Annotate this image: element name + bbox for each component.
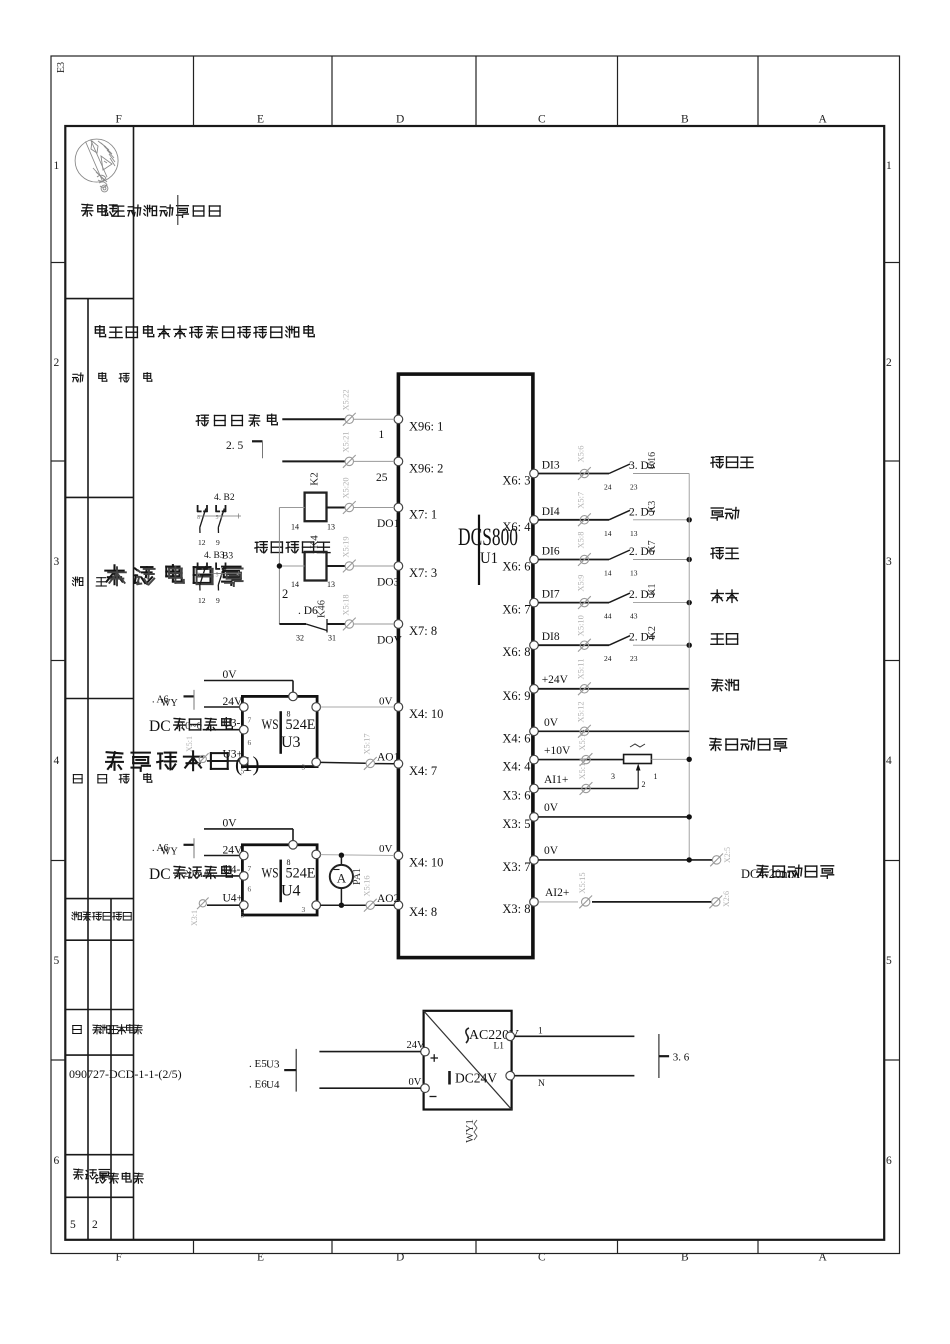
label 24V U4 bbox=[223, 844, 244, 856]
svg-text:DOV: DOV bbox=[377, 635, 403, 647]
svg-text:1: 1 bbox=[379, 429, 385, 441]
pin label X4: 10 bbox=[409, 707, 443, 721]
relay coil K2 bbox=[305, 472, 327, 521]
svg-text:K16: K16 bbox=[647, 452, 658, 469]
svg-text:U3: U3 bbox=[266, 1059, 280, 1071]
svg-text:X2:6: X2:6 bbox=[722, 891, 731, 907]
label DC速度输出 bbox=[149, 718, 232, 735]
wire U3- U3 bbox=[203, 729, 240, 731]
column letter B bottom bbox=[681, 1252, 689, 1264]
wire DI7 row bbox=[538, 602, 609, 604]
svg-text:13: 13 bbox=[630, 569, 638, 578]
wire DI6 row bbox=[538, 559, 609, 561]
wire DI8 row bbox=[538, 644, 609, 646]
pin label X6: 8 bbox=[502, 645, 530, 659]
K4 pin numbers 14 13 bbox=[291, 580, 335, 589]
column letter A top bbox=[819, 114, 828, 126]
svg-text:3: 3 bbox=[302, 762, 306, 771]
svg-text:X5:11: X5:11 bbox=[576, 659, 586, 680]
title block horizontal line y=298.6 bbox=[65, 298, 133, 300]
svg-text:5: 5 bbox=[54, 955, 60, 967]
signal label DO1 bbox=[377, 518, 400, 530]
terminal X5:19 bbox=[341, 536, 356, 572]
row number 3 right bbox=[886, 556, 892, 568]
drive unit U1 DCS800 block bbox=[398, 374, 533, 958]
svg-text:K1: K1 bbox=[647, 583, 658, 595]
terminal circle U4 pin 5 bbox=[240, 901, 249, 920]
svg-text:0V: 0V bbox=[379, 843, 393, 855]
plus mark bbox=[431, 1054, 439, 1062]
svg-text:X7: 1: X7: 1 bbox=[409, 508, 437, 522]
svg-text:8: 8 bbox=[197, 515, 200, 521]
svg-text:F: F bbox=[116, 1252, 122, 1264]
contact reference 3. D5 / K16 bbox=[629, 452, 658, 472]
svg-text:4: 4 bbox=[54, 755, 60, 767]
terminal circle U3 pin 5 bbox=[240, 757, 249, 776]
label 0V U3 feed bbox=[223, 669, 238, 681]
svg-text:X6: 9: X6: 9 bbox=[502, 689, 530, 703]
svg-text:524E: 524E bbox=[286, 717, 316, 733]
svg-text:E: E bbox=[257, 114, 264, 126]
svg-text:X4: 4: X4: 4 bbox=[502, 760, 531, 774]
svg-text:+10V: +10V bbox=[544, 745, 571, 757]
U1 designator text DCS800 bbox=[458, 524, 518, 567]
drawing name 电气原理图(1) bbox=[106, 751, 259, 776]
svg-text:X96: 2: X96: 2 bbox=[409, 461, 443, 475]
label 设计审核审定 bbox=[72, 912, 131, 921]
relay coil K4 bbox=[305, 535, 327, 581]
wire X6:9 row bbox=[538, 688, 689, 690]
pin label X4: 8 bbox=[409, 905, 437, 919]
contact pair B3 bbox=[197, 563, 241, 591]
reference .D6 and contact K46 bbox=[298, 600, 328, 618]
svg-text:DI8: DI8 bbox=[542, 631, 560, 643]
wire X3:5 row bbox=[538, 816, 689, 818]
svg-text:23: 23 bbox=[630, 654, 638, 663]
svg-text:14: 14 bbox=[291, 523, 299, 532]
terminal X5:12 bbox=[576, 701, 591, 737]
terminal circle X96: 2 on U1 left edge bbox=[394, 457, 403, 466]
column letter E bottom bbox=[257, 1252, 264, 1264]
label U4- bbox=[223, 864, 241, 876]
svg-text:8: 8 bbox=[287, 858, 291, 867]
column letter F top bbox=[116, 114, 122, 126]
terminal X5:18 bbox=[341, 594, 356, 630]
svg-text:. E6: . E6 bbox=[249, 1079, 267, 1091]
svg-text:090727-DCD-1-1-(2/5): 090727-DCD-1-1-(2/5) bbox=[69, 1067, 182, 1081]
svg-text:2: 2 bbox=[886, 357, 892, 369]
terminal X5:20 bbox=[341, 477, 356, 514]
label 0V psu bbox=[409, 1077, 422, 1088]
frame column tick x=193.5 top bbox=[193, 56, 195, 126]
label DC4-20mA / 速度给定二 bbox=[741, 865, 834, 881]
signal label AI1+ bbox=[544, 774, 568, 786]
terminal circle U4 top pin 8 bbox=[289, 841, 298, 850]
svg-text:3: 3 bbox=[886, 556, 892, 568]
label 0V U4 feed bbox=[223, 817, 238, 829]
svg-text:14: 14 bbox=[291, 580, 299, 589]
svg-text:A: A bbox=[337, 871, 347, 886]
net label 驱动器故障 bbox=[196, 414, 277, 426]
terminal X5:11 bbox=[576, 659, 591, 696]
svg-text:X5:15: X5:15 bbox=[577, 872, 587, 893]
svg-text:6: 6 bbox=[248, 884, 252, 893]
svg-text:0V: 0V bbox=[409, 1077, 422, 1088]
svg-text:9: 9 bbox=[216, 596, 220, 605]
svg-text:2: 2 bbox=[92, 1219, 98, 1231]
svg-text:23: 23 bbox=[630, 483, 638, 492]
wire AO1 bbox=[321, 762, 395, 763]
pin label X4: 10 bbox=[409, 856, 443, 870]
pin label X3: 5 bbox=[502, 817, 530, 831]
column letter D top bbox=[396, 114, 404, 126]
svg-text:X5:13: X5:13 bbox=[577, 729, 587, 750]
svg-text:X5:18: X5:18 bbox=[341, 594, 351, 615]
frame row tick y=660.5 right bbox=[884, 660, 899, 662]
junction dot bus 合闸 row bbox=[687, 600, 692, 605]
svg-text:DC: DC bbox=[149, 866, 171, 883]
wire AO2 bbox=[321, 904, 395, 906]
frame column tick x=758 top bbox=[757, 56, 759, 126]
terminal X5:14 bbox=[577, 758, 592, 795]
svg-text:4: 4 bbox=[886, 755, 892, 767]
wire X96:2 bbox=[282, 460, 394, 462]
svg-text:5: 5 bbox=[886, 955, 892, 967]
column letter C top bbox=[538, 114, 546, 126]
contact blade K1 bbox=[609, 593, 630, 603]
svg-text:X96: 1: X96: 1 bbox=[409, 419, 443, 433]
terminal circle psu L1 bbox=[506, 1032, 515, 1041]
frame row tick y=461 right bbox=[884, 460, 899, 462]
terminal circle X4: 10 on U1 left edge bbox=[394, 703, 403, 712]
svg-text:13: 13 bbox=[630, 529, 638, 538]
pot pin numbers 3 2 1 bbox=[611, 772, 658, 789]
svg-text:X5:19: X5:19 bbox=[341, 536, 351, 557]
pin label X3: 8 bbox=[502, 902, 530, 916]
terminal circle X6: 3 on U1 right edge bbox=[530, 469, 539, 478]
svg-text:0V: 0V bbox=[544, 802, 559, 814]
svg-text:X5:22: X5:22 bbox=[341, 389, 351, 410]
reference .E6/U4 bbox=[249, 1079, 280, 1092]
title block horizontal line y=497.4 bbox=[65, 496, 133, 498]
junction dot pot row bbox=[687, 757, 692, 762]
svg-text:DC: DC bbox=[149, 718, 171, 735]
svg-text:44: 44 bbox=[604, 612, 612, 621]
svg-text:2. 5: 2. 5 bbox=[226, 440, 244, 452]
row number 4 left bbox=[54, 755, 60, 767]
function label 合闸 bbox=[711, 590, 738, 602]
signal label DI3 bbox=[541, 460, 566, 472]
page number 2 bbox=[92, 1219, 98, 1231]
junction dot bus 集中 row bbox=[687, 517, 692, 522]
svg-text:4. B2: 4. B2 bbox=[214, 493, 235, 503]
wire number 1 bbox=[379, 429, 385, 441]
svg-text:25: 25 bbox=[376, 472, 388, 484]
svg-text:5: 5 bbox=[216, 515, 219, 521]
svg-text:2: 2 bbox=[54, 357, 60, 369]
terminal circle X6: 9 on U1 right edge bbox=[530, 685, 539, 694]
svg-text:WY: WY bbox=[161, 846, 178, 857]
svg-text:DI6: DI6 bbox=[542, 546, 560, 558]
svg-text:0V: 0V bbox=[223, 817, 238, 829]
svg-text:DO1: DO1 bbox=[377, 518, 400, 530]
svg-text:E: E bbox=[257, 1252, 264, 1264]
terminal X5:22 bbox=[341, 389, 356, 425]
row number 2 left bbox=[54, 357, 60, 369]
label 设备 bbox=[73, 577, 107, 586]
function label 复位 bbox=[711, 548, 739, 559]
stray vertical line in title row1 bbox=[177, 195, 179, 225]
label 0V at X4:10b bbox=[379, 843, 393, 855]
terminal X5:9 bbox=[576, 575, 591, 609]
junction dot bus 启动 row bbox=[687, 643, 692, 648]
terminal circle X6: 8 on U1 right edge bbox=[530, 641, 539, 650]
frame row tick y=860.5 left bbox=[51, 860, 65, 862]
contact pins 24 23 bbox=[604, 483, 638, 492]
svg-text:X3: 8: X3: 8 bbox=[502, 902, 530, 916]
svg-text:DI7: DI7 bbox=[542, 589, 560, 601]
paper size mark E3 bbox=[56, 62, 67, 73]
total pages 5 bbox=[70, 1219, 76, 1231]
svg-text:AI2+: AI2+ bbox=[545, 887, 569, 899]
wire label N psu bbox=[538, 1079, 545, 1089]
terminal circle X6: 4 on U1 right edge bbox=[530, 516, 539, 525]
potentiometer W bbox=[624, 744, 652, 764]
minus mark bbox=[430, 1096, 437, 1098]
signal label +10V bbox=[544, 745, 571, 757]
row number 5 right bbox=[886, 955, 892, 967]
right bus wire bbox=[688, 474, 690, 860]
svg-text:WY: WY bbox=[161, 698, 178, 709]
svg-text:X3: 5: X3: 5 bbox=[502, 817, 530, 831]
thin wire to bus row DI4 bbox=[633, 519, 689, 521]
svg-text:X5:7: X5:7 bbox=[576, 492, 586, 509]
frame row tick y=860.5 right bbox=[884, 860, 899, 862]
svg-text:AO1: AO1 bbox=[377, 752, 400, 764]
terminal X5:21 bbox=[341, 431, 356, 467]
terminal circle X7: 8 on U1 left edge bbox=[394, 620, 403, 629]
svg-text:DC24V: DC24V bbox=[455, 1071, 497, 1086]
svg-text:1: 1 bbox=[538, 1027, 543, 1037]
reference 4.B3 B3 bbox=[204, 551, 233, 562]
svg-text:B: B bbox=[681, 114, 689, 126]
terminal X5:15 bbox=[577, 872, 592, 908]
contact reference 2. D3 / K1 bbox=[629, 583, 658, 601]
contact B3 pin numbers 12 9 bbox=[198, 596, 220, 605]
svg-text:3: 3 bbox=[54, 556, 60, 568]
svg-text:2: 2 bbox=[282, 587, 288, 601]
svg-text:14: 14 bbox=[604, 569, 612, 578]
terminal X5:1 at U3+ bbox=[185, 736, 209, 765]
ammeter PA1 bbox=[330, 855, 363, 905]
pin label X7: 1 bbox=[409, 508, 437, 522]
svg-text:X5:12: X5:12 bbox=[576, 701, 586, 722]
company logo bbox=[75, 139, 118, 192]
svg-text:AI1+: AI1+ bbox=[544, 774, 568, 786]
terminal circle X7: 1 on U1 left edge bbox=[394, 503, 403, 512]
svg-text:0V: 0V bbox=[223, 669, 238, 681]
contact blade K3 bbox=[609, 510, 630, 520]
terminal circle psu 24V bbox=[421, 1047, 430, 1056]
left bracket to U3 U4 bbox=[284, 1049, 296, 1092]
frame row tick y=1060 right bbox=[884, 1059, 899, 1061]
wire DI4 row bbox=[538, 519, 609, 521]
junction dot X3:7 row bbox=[687, 857, 692, 862]
label 24V U3 bbox=[223, 696, 244, 708]
svg-text:X5:10: X5:10 bbox=[576, 615, 586, 636]
title block horizontal line y=898.6 bbox=[65, 898, 133, 900]
pin label X6: 6 bbox=[502, 560, 530, 574]
contact pair B2 bbox=[197, 505, 241, 533]
svg-text:. D6: . D6 bbox=[298, 605, 318, 617]
svg-text:X3:1: X3:1 bbox=[190, 910, 199, 926]
wire X3:6 row bbox=[538, 788, 638, 790]
row number 6 left bbox=[54, 1155, 60, 1167]
junction on left bus bbox=[277, 563, 282, 568]
frame row tick y=262.5 left bbox=[51, 262, 65, 264]
wire pot to bus bbox=[651, 758, 689, 760]
power bracket .A6/WY U3 bbox=[152, 690, 194, 710]
svg-text:1: 1 bbox=[886, 160, 892, 172]
frame column tick x=332 top bbox=[331, 56, 333, 126]
label 项目名称 bbox=[73, 373, 152, 383]
svg-text:X6: 8: X6: 8 bbox=[502, 645, 530, 659]
terminal circle psu 0V bbox=[421, 1084, 430, 1093]
terminal circle X4: 6 on U1 right edge bbox=[530, 727, 539, 736]
svg-text:+24V: +24V bbox=[542, 674, 569, 686]
svg-text:X5:8: X5:8 bbox=[576, 532, 586, 549]
svg-text:X4: 10: X4: 10 bbox=[409, 856, 443, 870]
svg-text:X4: 8: X4: 8 bbox=[409, 905, 437, 919]
wire psu N bbox=[515, 1075, 635, 1077]
svg-text:5: 5 bbox=[241, 766, 245, 775]
wire number 25 bbox=[376, 472, 388, 484]
terminal X5:13 bbox=[577, 729, 592, 766]
frame column tick x=476 top bbox=[475, 56, 477, 126]
svg-text:14: 14 bbox=[604, 529, 612, 538]
power bracket .A6/WY U4 bbox=[152, 838, 194, 858]
frame column tick x=617.5 top bbox=[617, 56, 619, 126]
svg-text:K7: K7 bbox=[647, 540, 658, 552]
frame column tick x=332 bottom bbox=[331, 1240, 333, 1254]
svg-text:X5:17: X5:17 bbox=[362, 733, 372, 754]
label 图纸名称 bbox=[73, 774, 151, 784]
cross reference 2.5 bbox=[226, 440, 263, 458]
wire U3 out 0V to X4:10 bbox=[321, 706, 395, 708]
right bracket 3.6 bbox=[659, 1034, 690, 1078]
wire X4:6 row bbox=[538, 730, 689, 732]
pin label X4: 4 bbox=[502, 760, 531, 774]
svg-text:5: 5 bbox=[216, 573, 219, 579]
svg-text:3: 3 bbox=[302, 905, 306, 914]
svg-text:8: 8 bbox=[197, 573, 200, 579]
pin label X4: 6 bbox=[502, 731, 530, 745]
contact pins 44 43 bbox=[604, 612, 638, 621]
wire X4:4 row bbox=[538, 759, 623, 761]
title block horizontal line y=1197.3 bbox=[65, 1196, 133, 1198]
terminal circle psu N bbox=[506, 1071, 515, 1080]
svg-text:D: D bbox=[396, 1252, 404, 1264]
column letter E top bbox=[257, 114, 264, 126]
svg-text:1: 1 bbox=[654, 772, 658, 781]
project owner name 湖北世纪新峰雷山水泥有限公司 bbox=[95, 326, 314, 339]
drawing number 090727-DCD-1-1-(2/5) bbox=[69, 1067, 182, 1081]
svg-text:K2: K2 bbox=[647, 626, 658, 638]
label AO1 bbox=[377, 752, 400, 764]
pin label X6: 3 bbox=[502, 474, 530, 488]
svg-text:13: 13 bbox=[327, 580, 335, 589]
svg-text:K3: K3 bbox=[647, 501, 658, 513]
pin label X4: 7 bbox=[409, 764, 437, 778]
wire psu 24V left bbox=[319, 1051, 420, 1053]
title block vertical line x=111 bbox=[110, 899, 112, 1240]
terminal X2:5 bbox=[710, 847, 732, 866]
svg-text:X5:9: X5:9 bbox=[576, 575, 586, 592]
svg-text:X3: 7: X3: 7 bbox=[502, 860, 530, 874]
terminal circle X96: 1 on U1 left edge bbox=[394, 415, 403, 424]
label U4+ bbox=[223, 893, 244, 905]
svg-text:12: 12 bbox=[198, 596, 206, 605]
terminal X5:8 bbox=[576, 532, 591, 566]
junction dot X3:5 row bbox=[687, 814, 692, 819]
frame row tick y=1060 left bbox=[51, 1059, 65, 1061]
svg-text:3: 3 bbox=[611, 772, 615, 781]
terminal circle X3: 6 on U1 right edge bbox=[530, 784, 539, 793]
column letter B top bbox=[681, 114, 689, 126]
svg-text:0V: 0V bbox=[379, 696, 393, 708]
frame column tick x=193.5 bottom bbox=[193, 1240, 195, 1254]
module U4 box WS1524E bbox=[242, 845, 317, 915]
function label 电源 bbox=[712, 680, 739, 692]
junction dot PA1 bottom bbox=[339, 903, 344, 908]
terminal circle X7: 3 on U1 left edge bbox=[394, 562, 403, 571]
svg-text:. E5: . E5 bbox=[249, 1058, 267, 1070]
0V feed wire U4 bbox=[204, 829, 293, 841]
svg-text:0V: 0V bbox=[544, 717, 559, 729]
signal label DOV bbox=[377, 635, 403, 647]
svg-text:5: 5 bbox=[241, 911, 245, 920]
wire U4+ U4 bbox=[207, 904, 240, 906]
svg-text:X7: 8: X7: 8 bbox=[409, 624, 437, 638]
svg-text:8: 8 bbox=[287, 709, 291, 718]
pin label X6: 7 bbox=[502, 603, 530, 617]
signal label DI8 bbox=[541, 631, 566, 643]
svg-text:U1: U1 bbox=[480, 550, 498, 567]
label DC电流输出 bbox=[149, 866, 232, 883]
svg-text:DO3: DO3 bbox=[377, 577, 400, 589]
wire psu 0V left bbox=[319, 1087, 420, 1089]
K46 pin numbers 32 31 bbox=[296, 634, 336, 643]
svg-text:524E: 524E bbox=[286, 865, 316, 881]
row number 1 left bbox=[54, 160, 60, 172]
svg-text:X4: 7: X4: 7 bbox=[409, 764, 437, 778]
function label 速度给定一 bbox=[710, 738, 787, 751]
frame column tick x=476 bottom bbox=[475, 1240, 477, 1254]
svg-text:X5:6: X5:6 bbox=[576, 446, 586, 463]
function label 启动 bbox=[711, 634, 738, 645]
wire X3:7 row bbox=[538, 859, 712, 861]
svg-text:24: 24 bbox=[604, 483, 612, 492]
function label 主开关 bbox=[711, 457, 753, 468]
title row1 overlapped text 系统/company bbox=[82, 204, 220, 217]
row number 4 right bbox=[886, 755, 892, 767]
label U3- bbox=[223, 718, 241, 730]
contact pins 14 13 bbox=[604, 529, 638, 538]
column letter A bottom bbox=[819, 1252, 828, 1264]
pin label X7: 8 bbox=[409, 624, 437, 638]
frame column tick x=617.5 bottom bbox=[617, 1240, 619, 1254]
row number 1 right bbox=[886, 160, 892, 172]
